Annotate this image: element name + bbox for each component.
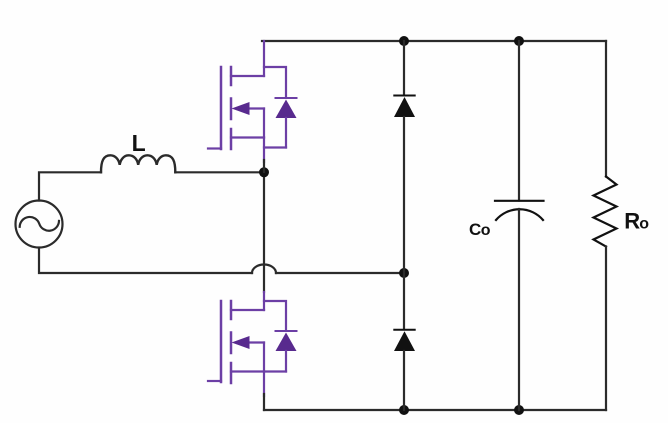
capacitor Co <box>495 201 544 220</box>
wire: capacitor top lead <box>518 41 520 201</box>
wire: ac source bottom lead <box>39 248 252 273</box>
wire: ac source top lead <box>39 172 101 200</box>
wire: top rail <box>262 40 606 42</box>
inductor L <box>101 155 175 172</box>
svg-text:Ro: Ro <box>624 209 649 234</box>
node: bottom rail / diode leg <box>399 405 409 415</box>
node: mid junction <box>259 167 269 177</box>
wire: diode leg lower <box>403 351 405 410</box>
ac source V1 <box>16 201 63 248</box>
wire crossover hop <box>252 265 276 273</box>
diode D1 (top) <box>394 96 415 118</box>
node: top rail / capacitor leg <box>514 36 524 46</box>
wire: diode leg middle <box>403 117 405 329</box>
wire: capacitor bottom lead <box>518 209 520 410</box>
wire: Q1 source lead to mid node <box>263 160 265 172</box>
wire: return wire to diode leg <box>276 272 404 274</box>
transistor Q1 (top MOSFET with body diode) <box>208 41 297 162</box>
node: bottom rail / capacitor leg <box>514 405 524 415</box>
svg-text:L: L <box>132 130 146 156</box>
wire: bottom rail <box>264 409 606 411</box>
wire: inductor to mid node <box>175 171 264 173</box>
svg-text:Co: Co <box>469 220 491 239</box>
wire: resistor bottom lead <box>605 247 607 411</box>
wire: Q2 source lead to bottom rail <box>263 394 265 410</box>
node: return wire / diode leg junction <box>399 268 409 278</box>
wire: resistor top lead <box>605 41 607 177</box>
resistor Ro <box>594 177 617 247</box>
wire: mid node vertical down to lower MOSFET <box>263 172 265 292</box>
diode D2 (bottom) <box>394 330 415 351</box>
node: top rail / diode leg <box>399 36 409 46</box>
transistor Q2 (bottom MOSFET with body diode) <box>208 292 297 396</box>
wire: diode leg upper <box>403 41 405 95</box>
